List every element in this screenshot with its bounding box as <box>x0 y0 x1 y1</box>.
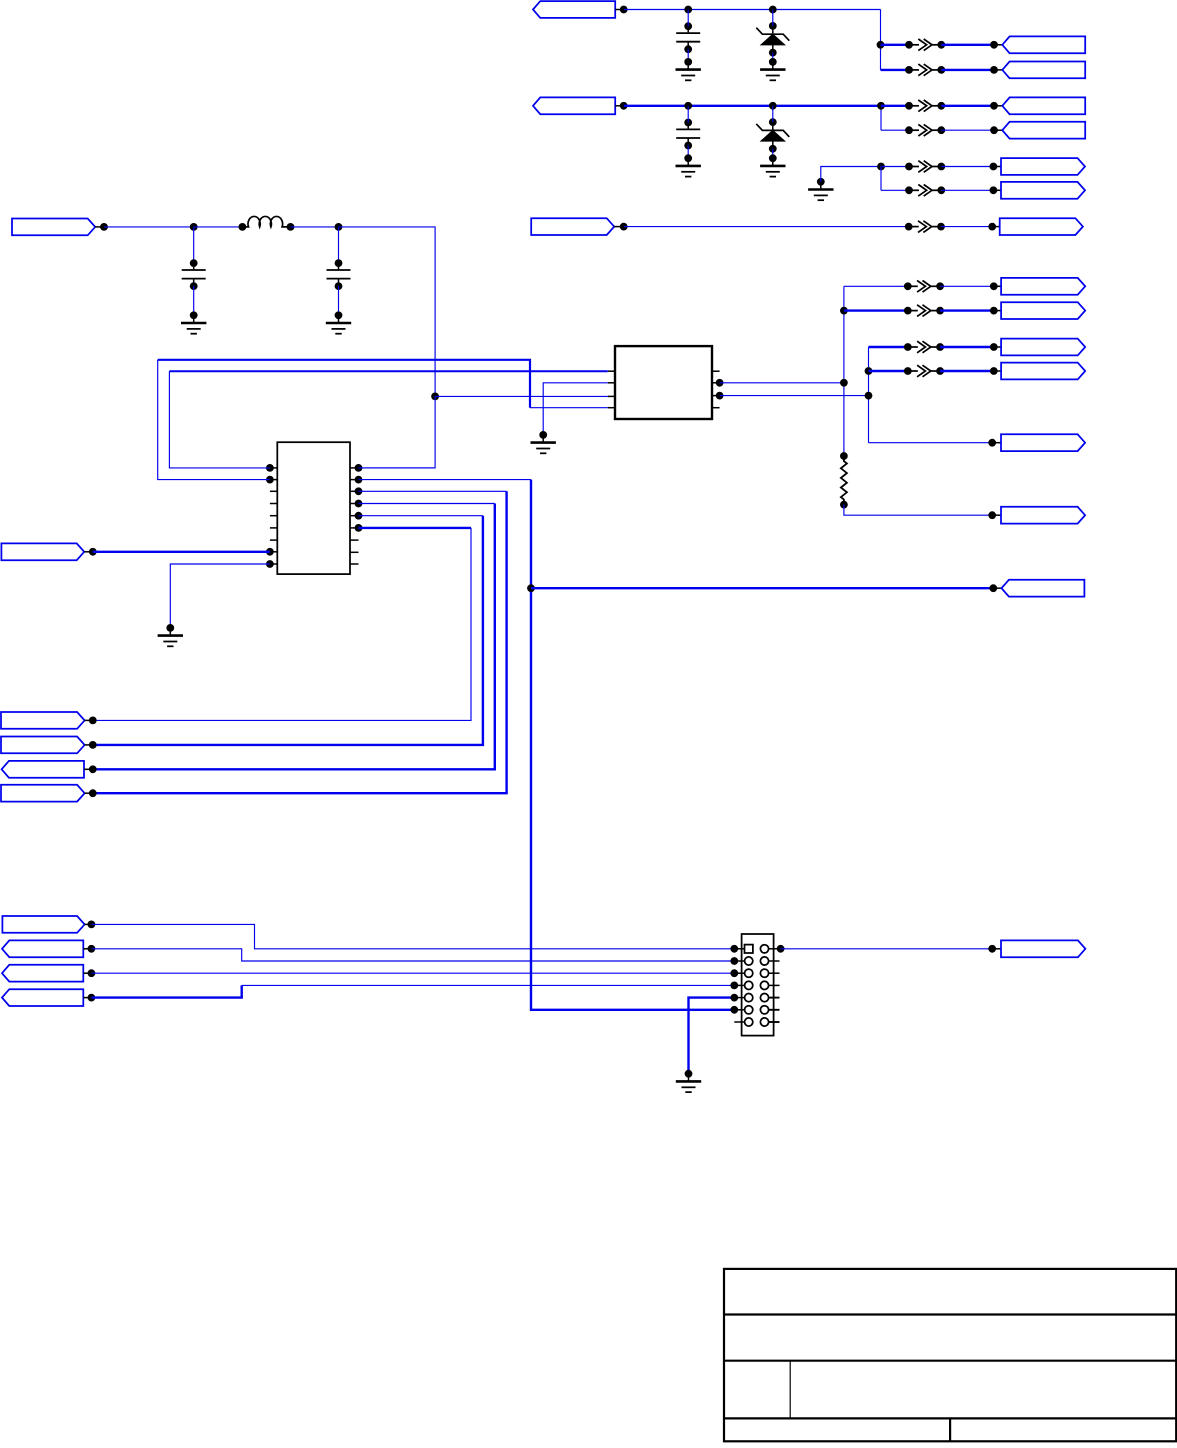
pin 18 of U1 (right) <box>350 467 359 469</box>
wire loop to U2 pin4 <box>530 407 608 409</box>
ferrite bead FB2 <box>909 64 941 76</box>
wire row1 right segment <box>941 44 994 46</box>
voltage regulator U2 <box>615 346 712 419</box>
node BOUT port pin <box>988 945 996 953</box>
ferrite bead FB11 <box>908 365 940 377</box>
junction V2 row D <box>865 367 873 375</box>
ground below D1 <box>760 62 785 80</box>
port CTRL (middle-left input) <box>1 543 84 560</box>
port OUT1 <box>1002 36 1085 53</box>
wire U1 pinR3 horizontal <box>359 490 507 492</box>
pin of port VIN <box>95 226 104 228</box>
pin 11 stub of J1 (left) <box>734 1009 745 1011</box>
pin of port OUT1 <box>994 44 1002 46</box>
port OUT7 <box>1000 218 1083 235</box>
port OUT6 <box>1001 182 1085 199</box>
node U1 left pin <box>266 464 274 472</box>
node at port BP2 <box>88 945 96 953</box>
wire bus down to connector <box>531 480 734 1010</box>
node row3 port pin <box>990 102 998 110</box>
node J1 left pin row 2 <box>730 957 738 965</box>
node at port VIN <box>100 223 108 231</box>
pin of port INT <box>85 744 93 746</box>
junction row5 <box>877 163 885 171</box>
ground below C2 <box>676 158 701 176</box>
pin of port BP4 <box>83 997 91 999</box>
ferrite bead FB5 <box>909 161 941 173</box>
pin 4 stub of J1 (right) <box>768 960 780 962</box>
pin 9 of U1 (left) <box>270 563 277 565</box>
node U1 right pin <box>355 464 363 472</box>
pin of port VOUT1 <box>994 285 1001 287</box>
wire pinR3 to port SDA <box>93 491 507 793</box>
port BP2 (bottom-left) <box>2 940 83 957</box>
wire net3 horizontal <box>624 226 909 228</box>
node at port CTRL <box>89 548 97 556</box>
pin of port PWR_IN2 <box>615 105 624 107</box>
pin 1 stub of J1 (left) <box>734 948 745 950</box>
node U1 right pin <box>355 500 363 508</box>
pin 5 of U2 (right) <box>712 407 720 409</box>
wire row2 right segment <box>941 69 994 71</box>
node row4 port pin <box>990 126 998 134</box>
pin 2 stub of J1 (right) <box>768 948 780 950</box>
node J1 left pin row 5 <box>730 994 738 1002</box>
wire U2 pin2 to ground <box>543 383 608 435</box>
wire loop over top to U2 pin4 <box>158 360 530 408</box>
port OUT4 <box>1002 122 1085 139</box>
capacitor C4 <box>327 263 351 286</box>
pin 10 pad of J1 <box>760 994 768 1002</box>
pin 1 square pad of J1 <box>745 945 753 953</box>
junction C3 <box>190 223 198 231</box>
node at port BP4 <box>88 994 96 1002</box>
wire U2 pin7 to distribution node <box>720 382 844 384</box>
ferrite bead FB6 <box>909 185 941 197</box>
wire row E to port VOUT5 <box>869 442 993 444</box>
junction C4 <box>335 223 343 231</box>
wire distribution V1 <box>843 286 845 456</box>
pin 12 pad of J1 <box>760 1006 768 1014</box>
junction net1 row1 <box>877 41 885 49</box>
pin 6 pad of J1 <box>760 969 768 977</box>
pin 4 of U2 (left) <box>608 407 615 409</box>
wire pinR5 to port INT <box>93 516 483 745</box>
pin of port VOUT4 <box>994 370 1001 372</box>
node row2 port pin <box>990 66 998 74</box>
wire U1 pinR5 horizontal <box>359 515 483 517</box>
wire L1 to C4 <box>291 226 339 228</box>
diode D2 (TVS zener) <box>756 122 789 149</box>
wire filtered rail right and down <box>339 227 436 397</box>
junction C1 to net1 <box>684 6 692 14</box>
ferrite bead FB4 <box>909 124 941 136</box>
wire row C <box>869 346 908 348</box>
pin of port PWR_IN1 <box>615 9 624 11</box>
port VOUT1 <box>1001 278 1085 295</box>
ferrite bead FB9 <box>908 305 940 317</box>
node row E port pin <box>988 439 996 447</box>
port BP1 (bottom-left) <box>2 916 84 933</box>
pin 12 of U1 (right) <box>350 539 359 541</box>
pin 4 of U1 (left) <box>270 503 277 505</box>
node at port BP3 <box>88 969 96 977</box>
pin 3 of U2 (left) <box>608 395 615 397</box>
pin 7 of U1 (left) <box>270 539 277 541</box>
wire U1 pinR6 to port RST <box>359 527 472 529</box>
pin 13 stub of J1 (left) <box>734 1021 745 1023</box>
pin 8 pad of J1 <box>760 981 768 989</box>
pin 12 stub of J1 (right) <box>768 1009 780 1011</box>
wire R1 bottom to row F <box>844 505 992 516</box>
port BP3 (bottom-left) <box>2 965 83 982</box>
node MIDIO port pin <box>989 584 997 592</box>
wire U1 pin9 to ground <box>170 564 270 628</box>
pin 15 of U1 (right) <box>350 503 359 505</box>
pin of port OUT2 <box>994 69 1002 71</box>
wire row D right segment <box>940 370 994 372</box>
pin 3 stub of J1 (left) <box>734 960 745 962</box>
ground source for rows 5-6 <box>808 182 833 200</box>
wire U1 pin1 left segment <box>169 371 270 468</box>
pin of port OUT4 <box>994 129 1002 131</box>
wire net2 horizontal <box>624 105 881 107</box>
wire rail down to U1 pin R1 row <box>359 396 436 468</box>
pin 7 pad of J1 <box>745 981 753 989</box>
wire distribution V2 <box>868 347 870 443</box>
node U1 left pin <box>266 560 274 568</box>
pin 3 of U1 (left) <box>270 490 277 492</box>
port PWR_IN1 (top-right input) <box>533 1 615 18</box>
wire C1 upper stem <box>687 10 689 27</box>
wire net2 vertical branch <box>880 106 882 130</box>
diode D1 (TVS zener) <box>756 26 789 53</box>
wire U1 pinR2 to bus corner <box>359 479 532 481</box>
pin of port OUT6 <box>993 189 1001 191</box>
node U1 left pin <box>266 548 274 556</box>
pin of port SCL <box>84 768 93 770</box>
node row D port pin <box>990 367 998 375</box>
ground below D2 <box>760 158 785 176</box>
wire C4 lower stem <box>338 286 340 315</box>
wire U1 pin2 left segment <box>158 360 270 480</box>
port INT (mid-left) <box>1 737 85 754</box>
port MIDIO (middle-right) <box>1002 580 1085 597</box>
node U1 right pin <box>355 476 363 484</box>
port VOUT6 <box>1001 507 1085 524</box>
wire row4 left segment <box>881 129 909 131</box>
pin of port RST <box>85 719 93 721</box>
node row C port pin <box>990 343 998 351</box>
inductor L1 <box>242 216 290 226</box>
wire C3 to L1 <box>194 226 243 228</box>
wire J1 pin2 to port BOUT <box>781 948 993 950</box>
node J1 left pin row 4 <box>730 982 738 990</box>
wire row5 right segment <box>941 166 993 168</box>
wire row C right segment <box>940 346 994 348</box>
pin 11 of U1 (right) <box>350 551 359 553</box>
pin 5 stub of J1 (left) <box>734 972 745 974</box>
ground below C3 <box>181 315 206 333</box>
wire net1 horizontal <box>624 9 881 11</box>
node J1 left pin row 3 <box>730 969 738 977</box>
wire net1 vertical branch <box>880 10 882 70</box>
wire VIN to C3 <box>104 226 194 228</box>
pin 8 stub of J1 (right) <box>768 984 780 986</box>
node row1 port pin <box>990 41 998 49</box>
wire row B right segment <box>940 309 994 311</box>
node at port SIG_IN1 <box>620 223 628 231</box>
port BP4 (bottom-left) <box>2 989 83 1006</box>
wire row A right segment <box>940 285 994 287</box>
wire U1 pinR4 horizontal <box>359 503 495 505</box>
pin 3 pad of J1 <box>745 957 753 965</box>
wire row4 right segment <box>941 129 994 131</box>
wire row D <box>869 370 908 372</box>
pin of port CTRL <box>84 551 93 553</box>
ground below connector <box>676 1074 701 1092</box>
port VOUT4 <box>1001 363 1085 380</box>
pin 9 stub of J1 (left) <box>734 997 745 999</box>
pin 6 of U2 (right) <box>712 395 720 397</box>
wire D1 lower stem <box>772 53 774 62</box>
junction D2 to net2 <box>769 102 777 110</box>
wire BP4 continuation to connector <box>242 984 735 986</box>
node at port INT <box>89 741 97 749</box>
pin of port VOUT5 <box>992 442 1001 444</box>
connector J1 (2x7 header) <box>742 934 774 1036</box>
pin of port VOUT3 <box>994 346 1001 348</box>
pin 8 of U1 (left) <box>270 551 277 553</box>
node row7 port pin <box>988 223 996 231</box>
wire row3 right segment <box>941 105 994 107</box>
pin 10 stub of J1 (right) <box>768 997 780 999</box>
pin of port OUT7 <box>992 226 1000 228</box>
node U2 pin6 <box>716 392 724 400</box>
node at port BP1 <box>88 921 96 929</box>
pin 2 of U1 (left) <box>270 479 277 481</box>
pin of port VOUT2 <box>994 310 1001 312</box>
junction V2 U2 pin6 <box>865 392 873 400</box>
port VOUT5 <box>1001 434 1085 451</box>
node U1 left pin <box>266 476 274 484</box>
pin 13 of U1 (right) <box>350 527 359 529</box>
port OUT5 <box>1001 158 1085 175</box>
junction bus to MIDIO port <box>527 584 535 592</box>
node U1 right pin <box>355 524 363 532</box>
ferrite bead FB1 <box>909 39 941 51</box>
ground below C4 <box>326 315 351 333</box>
pin of port OUT5 <box>993 166 1001 168</box>
wire BP3 to connector pin5 <box>91 972 734 974</box>
wire row1 left segment <box>881 44 910 46</box>
junction rail to U2 pin3 <box>431 393 439 401</box>
node at port PWR_IN1 <box>620 6 628 14</box>
node U2 pin7 <box>716 379 724 387</box>
ground below U2 <box>531 435 556 453</box>
node U1 right pin <box>355 512 363 520</box>
wire C1 lower stem <box>687 49 689 62</box>
junction V1 U2 pin7 <box>840 379 848 387</box>
pin of port SIG_IN1 <box>614 226 624 228</box>
pin 14 pad of J1 <box>760 1018 768 1026</box>
wire row7 right segment <box>941 226 992 228</box>
wire row A <box>844 285 908 287</box>
port PWR_IN2 (second top-right input) <box>533 97 615 114</box>
pin 5 pad of J1 <box>745 969 753 977</box>
port OUT3 <box>1002 97 1085 114</box>
junction V1 row B <box>840 307 848 315</box>
wire row5 vertical branch <box>880 167 882 191</box>
pin 13 pad of J1 <box>745 1018 753 1026</box>
junction net2 row3 <box>877 102 885 110</box>
node row B port pin <box>990 307 998 315</box>
pin 14 of U1 (right) <box>350 515 359 517</box>
wire U1 pinR1 to rail <box>359 467 436 469</box>
op-amp U1 (main IC) <box>277 442 350 574</box>
pin 8 of U2 (right) <box>712 370 720 372</box>
node row A port pin <box>990 282 998 290</box>
pin 14 stub of J1 (right) <box>768 1021 780 1023</box>
wire row6 right segment <box>941 189 993 191</box>
pin 4 pad of J1 <box>760 957 768 965</box>
wire C3 upper stem <box>193 227 195 263</box>
wire pinR4 to port SCL <box>93 504 495 770</box>
pin 11 pad of J1 <box>745 1006 753 1014</box>
node U1 right pin <box>355 487 363 495</box>
ferrite bead FB3 <box>909 100 941 112</box>
pin of port BP3 <box>83 972 91 974</box>
ground below U1 <box>158 628 183 646</box>
pin 2 pad of J1 <box>760 945 768 953</box>
wire row5 left segment <box>881 166 909 168</box>
pin 6 stub of J1 (right) <box>768 972 780 974</box>
wire C4 upper stem <box>338 227 340 263</box>
pin 1 of U1 (left) <box>270 467 277 469</box>
capacitor C3 <box>182 263 206 286</box>
port SDA (mid-left) <box>1 785 85 802</box>
node row F port pin <box>988 511 996 519</box>
wire BP2 to connector pin3 <box>91 949 734 961</box>
pin of port BP2 <box>83 948 91 950</box>
node row5 port pin <box>990 163 998 171</box>
pin 16 of U1 (right) <box>350 490 359 492</box>
port SIG_IN1 (third top input) <box>531 218 614 235</box>
ferrite bead FB8 <box>908 281 940 293</box>
wire U2 pin3 to rail <box>435 395 608 397</box>
wire D1 upper stem <box>772 10 774 26</box>
wire CTRL to U1 pin8 <box>93 551 270 553</box>
ground below C1 <box>676 62 701 80</box>
pin 6 of U1 (left) <box>270 527 277 529</box>
pin 7 stub of J1 (left) <box>734 984 745 986</box>
pin of port VOUT6 <box>992 514 1001 516</box>
node at port RST <box>89 717 97 725</box>
capacitor C2 <box>676 123 700 146</box>
pin of port OUT3 <box>994 105 1002 107</box>
wire D2 upper stem <box>772 106 774 122</box>
pin of port SDA <box>85 792 93 794</box>
wire junction to MIDIO port <box>531 587 993 589</box>
pin 10 of U1 (right) <box>350 563 359 565</box>
capacitor C1 <box>676 26 700 49</box>
title block frame <box>724 1269 1176 1441</box>
junction D1 to net1 <box>769 6 777 14</box>
wire U2 pin6 to distribution node <box>720 395 869 397</box>
port VIN (top-left input) <box>12 219 95 236</box>
wire row2 left segment <box>881 69 910 71</box>
pin of port MIDIO <box>993 587 1001 589</box>
node J1 left pin row 6 <box>730 1006 738 1014</box>
resistor R1 <box>841 456 847 505</box>
port VOUT2 <box>1001 302 1085 319</box>
wire row3 left segment <box>881 105 909 107</box>
wire row B <box>844 309 908 311</box>
wire C3 lower stem <box>193 286 195 315</box>
pin 7 of U2 (right) <box>712 382 720 384</box>
node row6 port pin <box>990 186 998 194</box>
junction C2 to net2 <box>684 102 692 110</box>
wire C2 upper stem <box>687 106 689 123</box>
port OUT2 <box>1002 62 1085 79</box>
node at port SCL <box>89 765 97 773</box>
node at port PWR_IN2 <box>620 102 628 110</box>
wire from ground up <box>821 167 881 182</box>
wire BP1 to connector pin1 <box>91 924 734 948</box>
wire BP4 to connector pin7 <box>91 985 241 997</box>
wire RST vertical down <box>93 528 471 721</box>
wire C2 lower stem <box>687 146 689 159</box>
pin of port BOUT <box>992 948 1001 950</box>
ground wire to connector pin9 <box>689 998 735 1074</box>
port SCL (mid-left) <box>2 761 84 778</box>
pin 9 pad of J1 <box>745 994 753 1002</box>
pin 5 of U1 (left) <box>270 515 277 517</box>
wire D2 lower stem <box>772 149 774 158</box>
node J1 left pin row 1 <box>730 945 738 953</box>
ferrite bead FB10 <box>908 341 940 353</box>
port RST (mid-left) <box>1 712 85 729</box>
pin 2 of U2 (left) <box>608 382 615 384</box>
port VOUT3 <box>1001 339 1085 356</box>
node at port SDA <box>89 789 97 797</box>
pin 1 of U2 (left) <box>608 370 615 372</box>
node J1 pin2 <box>777 945 785 953</box>
ferrite bead FB7 <box>909 221 941 233</box>
pin of port BP1 <box>85 923 92 925</box>
pin 17 of U1 (right) <box>350 479 359 481</box>
port BOUT (bottom-right) <box>1001 940 1085 957</box>
wire row6 left segment <box>881 189 909 191</box>
wire loop top to U2 pin1 <box>169 370 607 372</box>
